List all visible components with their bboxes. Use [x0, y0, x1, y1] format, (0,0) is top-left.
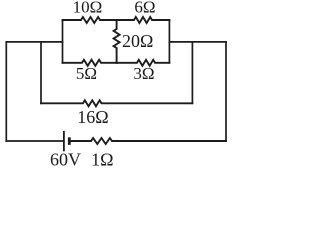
resistor R 6ohm with top edge wire: [117, 17, 170, 23]
resistor R 3ohm with bottom edge wire: [117, 60, 170, 66]
wire bottom left of battery: [6, 140, 63, 142]
battery 60V short plate: [68, 137, 71, 145]
wire top-right stub: [169, 41, 226, 43]
resistor R 16ohm with inner loop bottom wire: [41, 100, 192, 106]
svg-text:1Ω: 1Ω: [91, 150, 113, 170]
svg-text:16Ω: 16Ω: [77, 107, 108, 127]
wire top-left stub: [6, 41, 62, 43]
resistor R 5ohm with bottom edge wire: [63, 60, 117, 66]
wire inner loop right vertical: [191, 42, 193, 103]
battery 60V long plate: [63, 131, 65, 151]
resistor R 1ohm with bottom wire: [71, 138, 226, 144]
bridge rectangle left edge: [62, 20, 64, 63]
svg-text:6Ω: 6Ω: [134, 0, 155, 17]
wire outer left vertical: [5, 42, 7, 141]
svg-text:60V: 60V: [50, 150, 81, 170]
svg-text:5Ω: 5Ω: [76, 64, 97, 83]
wire inner loop left vertical: [40, 42, 42, 103]
svg-text:20Ω: 20Ω: [122, 31, 153, 51]
bridge rectangle right edge: [168, 20, 170, 63]
resistor R 20ohm vertical middle branch: [114, 20, 120, 63]
wire outer right vertical: [225, 42, 227, 141]
svg-text:10Ω: 10Ω: [73, 0, 103, 17]
resistor R 10ohm with top edge wire: [63, 17, 117, 23]
svg-text:3Ω: 3Ω: [133, 64, 154, 83]
